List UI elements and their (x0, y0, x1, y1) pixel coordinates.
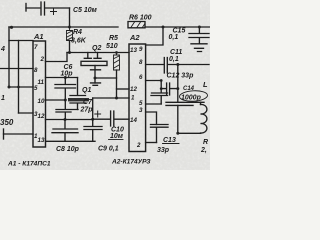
wire pin3 А2 (146, 112, 157, 125)
wire pin12 А2 (117, 88, 130, 90)
wire W53 pin2 to pin13 А2 (67, 52, 129, 54)
wire corner down to C9/C10 (92, 98, 94, 119)
wire pin13 А1 ground rail (46, 140, 96, 142)
wire pin3 А1 (19, 112, 34, 114)
node bus coil bottom (176, 132, 179, 135)
node R5 top (115, 51, 118, 54)
node rail left corner (10, 26, 13, 29)
capacitor C5 (26, 2, 70, 15)
capacitor C15 (189, 27, 209, 44)
terminal input bottom left (3, 129, 5, 139)
wire coil bottom (178, 132, 201, 134)
plus sign C10 (95, 111, 101, 117)
wire second left vertical (18, 41, 20, 114)
pin numbers А2 (130, 46, 143, 149)
capacitor C9 (84, 119, 102, 141)
wire top supply rail (9, 26, 210, 28)
wire R4 to W53 (69, 41, 71, 53)
plus sign C5 (51, 9, 57, 15)
transistor Q2 channel (81, 61, 107, 65)
node C9/C10/pin12 junction (91, 118, 94, 121)
scan noise overlay (0, 0, 210, 170)
capacitor C6 (55, 78, 76, 101)
ground under C15 (191, 44, 207, 52)
capacitor C13 (151, 125, 169, 143)
wire pin6 А2 (146, 80, 162, 82)
pin numbers А1 (34, 44, 45, 144)
transistor Q2 source (91, 66, 101, 83)
node C11 bus (176, 63, 179, 66)
IC box А2 (129, 44, 146, 152)
capacitor C8 (52, 120, 78, 142)
wire C14 top to coil (200, 102, 202, 104)
node left rail pin5 (8, 86, 11, 89)
IC box А1 (33, 41, 46, 147)
wire Q2 source to R5 column (95, 77, 117, 79)
resistor R4 (67, 27, 73, 41)
node junction C5/R4/rail (68, 26, 71, 29)
wire pin10 А1 (46, 99, 66, 101)
wire left rail vertical (8, 27, 10, 87)
underline 10м (109, 139, 124, 141)
node pin6 stub (160, 79, 163, 82)
inductor L coil (193, 102, 207, 133)
resistor R5 (114, 53, 120, 71)
capacitor C12 (161, 83, 178, 95)
wire right bus (177, 65, 179, 134)
wire pin5 А1 (9, 86, 33, 88)
capacitor C14 (166, 102, 193, 105)
node Q2 source (94, 77, 97, 80)
node R4 bottom (68, 51, 71, 54)
node C15 rail (198, 26, 201, 29)
terminal input top left (25, 4, 27, 12)
wire pin11 А1 (46, 77, 78, 79)
node R5 bottom pin1 (115, 97, 118, 100)
capacitor C7 (56, 100, 78, 120)
node C12 bus (176, 87, 179, 90)
wire pin2 А2 (146, 142, 157, 144)
wire pin8 А1 (0, 68, 33, 70)
wire pin2 А1 jog (46, 53, 68, 62)
node C6 top (64, 76, 67, 79)
wire pin12 А1 (46, 119, 93, 121)
capacitor C11 (146, 58, 209, 74)
capacitor C10 polarized (93, 111, 129, 126)
wire pin1 А1 (4, 133, 34, 135)
label C13 underline (163, 143, 180, 145)
wire pin7 А1 (9, 40, 33, 42)
node pin10/C6/C7 (64, 99, 67, 102)
node C8 top (64, 118, 67, 121)
node second vertical pin5 (17, 86, 20, 89)
capacitor pin6-pin5 (151, 81, 168, 105)
resistor R6 (128, 22, 145, 28)
wire pin5 А2 (146, 103, 162, 105)
wire C5 to rail (69, 8, 71, 27)
crystal Q1 (70, 78, 86, 110)
transistor Q2 gates (84, 53, 101, 59)
wire pin9 А2 (146, 27, 163, 45)
wire pin1 А2 (93, 97, 129, 99)
ground under Q2 (91, 83, 101, 85)
node pin9 rail (162, 26, 165, 29)
wire R5 column down (116, 70, 118, 98)
ellipse around 1000p (179, 90, 208, 102)
node C12 left (160, 87, 163, 90)
